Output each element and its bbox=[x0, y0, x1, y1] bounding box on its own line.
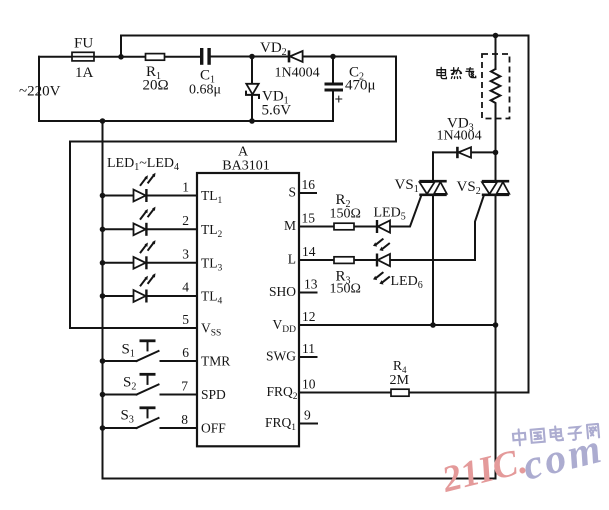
svg-text:5: 5 bbox=[182, 312, 189, 327]
svg-text:1: 1 bbox=[182, 180, 189, 195]
svg-text:2: 2 bbox=[182, 213, 189, 228]
svg-text:SPD: SPD bbox=[201, 387, 226, 402]
svg-text:1A: 1A bbox=[75, 65, 94, 81]
svg-text:470μ: 470μ bbox=[345, 78, 376, 94]
svg-text:FU: FU bbox=[74, 36, 93, 52]
svg-text:A: A bbox=[238, 145, 249, 160]
svg-text:M: M bbox=[284, 218, 296, 233]
svg-text:+: + bbox=[335, 92, 344, 108]
svg-text:OFF: OFF bbox=[201, 421, 226, 436]
svg-text:2M: 2M bbox=[390, 373, 410, 388]
svg-text:L: L bbox=[288, 252, 296, 267]
svg-text:13: 13 bbox=[304, 277, 318, 292]
svg-text:20Ω: 20Ω bbox=[143, 78, 169, 94]
svg-text:1N4004: 1N4004 bbox=[437, 129, 482, 144]
svg-text:TMR: TMR bbox=[201, 354, 230, 369]
svg-text:11: 11 bbox=[302, 341, 315, 356]
svg-text:14: 14 bbox=[302, 244, 316, 259]
svg-text:SHO: SHO bbox=[269, 284, 296, 299]
svg-text:15: 15 bbox=[302, 211, 316, 226]
svg-text:S: S bbox=[288, 185, 296, 200]
svg-text:16: 16 bbox=[302, 177, 316, 192]
svg-text:5.6V: 5.6V bbox=[262, 103, 292, 119]
svg-text:8: 8 bbox=[181, 412, 188, 427]
svg-text:SWG: SWG bbox=[266, 349, 296, 364]
svg-text:10: 10 bbox=[302, 377, 316, 392]
svg-text:150Ω: 150Ω bbox=[330, 282, 361, 297]
svg-text:0.68μ: 0.68μ bbox=[189, 83, 221, 98]
svg-text:~220V: ~220V bbox=[19, 84, 61, 100]
svg-text:12: 12 bbox=[302, 309, 316, 324]
svg-text:1N4004: 1N4004 bbox=[275, 66, 320, 81]
svg-text:BA3101: BA3101 bbox=[222, 159, 269, 174]
svg-text:3: 3 bbox=[182, 247, 189, 262]
svg-text:9: 9 bbox=[304, 408, 311, 423]
svg-text:7: 7 bbox=[181, 379, 188, 394]
svg-text:4: 4 bbox=[182, 280, 189, 295]
svg-text:LED1~LED4: LED1~LED4 bbox=[107, 156, 179, 173]
svg-text:150Ω: 150Ω bbox=[330, 207, 361, 222]
svg-text:6: 6 bbox=[182, 345, 189, 360]
